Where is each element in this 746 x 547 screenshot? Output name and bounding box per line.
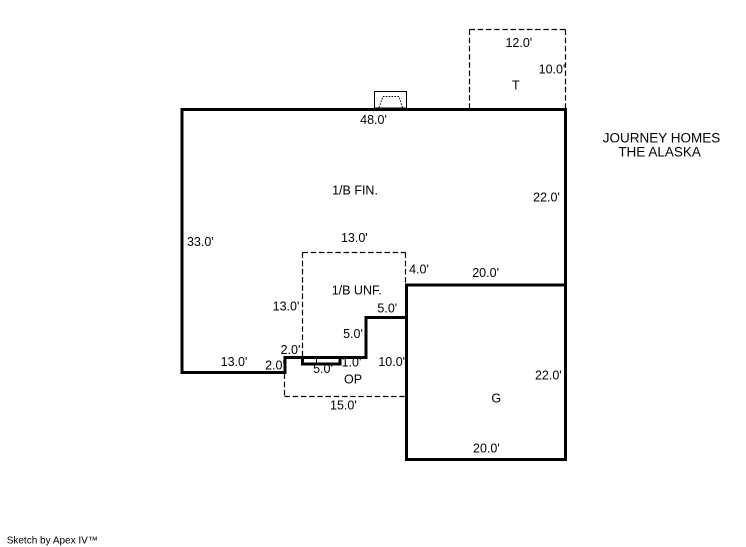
dashed 1/B UNF top edge <box>303 252 406 254</box>
main building outline (1/B FIN. perimeter: left, top, right walls) <box>182 110 566 373</box>
wall: 5.0' vertical at x=366 <box>365 318 368 360</box>
fireplace trapezoid (dotted) <box>379 97 403 108</box>
svg-text:5.0': 5.0' <box>313 362 333 376</box>
svg-text:2.0': 2.0' <box>281 343 301 357</box>
svg-text:13.0': 13.0' <box>221 355 248 369</box>
svg-text:5.0': 5.0' <box>343 327 363 341</box>
dashed T box top edge <box>470 29 566 31</box>
svg-text:5.0': 5.0' <box>377 302 397 316</box>
svg-text:OP: OP <box>344 373 362 387</box>
svg-text:T: T <box>512 79 520 93</box>
dashed 1/B UNF right edge (4.0') <box>405 253 407 285</box>
wall: 5.0' horizontal at y=317.5 <box>365 316 408 319</box>
svg-text:22.0': 22.0' <box>533 191 560 205</box>
wall: 2.0' vertical step at x=285 <box>284 358 287 375</box>
svg-text:THE ALASKA: THE ALASKA <box>618 145 701 160</box>
svg-text:13.0': 13.0' <box>273 300 300 314</box>
svg-text:2.0': 2.0' <box>265 359 285 373</box>
svg-text:10.0': 10.0' <box>378 355 405 369</box>
svg-text:33.0': 33.0' <box>187 235 214 249</box>
svg-text:20.0': 20.0' <box>472 266 499 280</box>
svg-text:1/B UNF.: 1/B UNF. <box>332 284 382 298</box>
svg-text:15.0': 15.0' <box>330 399 357 413</box>
dashed OP left edge <box>284 374 286 397</box>
svg-text:4.0': 4.0' <box>409 263 429 277</box>
svg-text:G: G <box>491 392 501 406</box>
svg-text:22.0': 22.0' <box>535 369 562 383</box>
svg-text:10.0': 10.0' <box>539 63 566 77</box>
svg-text:12.0': 12.0' <box>505 36 532 50</box>
svg-text:48.0': 48.0' <box>360 113 387 127</box>
garage G rectangle <box>407 285 566 460</box>
svg-text:1.0': 1.0' <box>342 356 362 370</box>
svg-text:JOURNEY HOMES: JOURNEY HOMES <box>603 131 721 146</box>
porch step divider <box>316 358 318 365</box>
dashed T box left edge <box>469 30 471 109</box>
dashed 1/B UNF left edge <box>302 253 304 357</box>
fireplace rectangle on top wall <box>375 92 407 109</box>
dashed T box right edge <box>565 30 567 109</box>
svg-text:20.0': 20.0' <box>473 442 500 456</box>
svg-text:Sketch by Apex IV™: Sketch by Apex IV™ <box>7 536 98 547</box>
dashed OP bottom edge (15.0') <box>285 396 407 398</box>
porch step rectangle below wall <box>303 356 341 364</box>
wall: horizontal at y=357.5 from step to 5' vertical <box>284 356 367 359</box>
svg-text:13.0': 13.0' <box>341 231 368 245</box>
svg-text:1/B FIN.: 1/B FIN. <box>332 184 378 198</box>
